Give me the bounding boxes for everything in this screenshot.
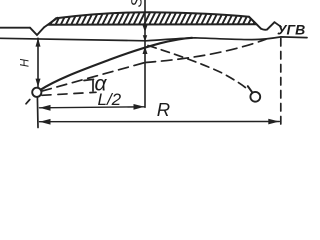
- right circle: [250, 92, 260, 102]
- svg-text:УГВ: УГВ: [277, 22, 305, 38]
- L/2 dimension line: [40, 107, 145, 108]
- S arrow at water line: [143, 35, 147, 42]
- R left arrow: [40, 119, 51, 125]
- L/2 right arrow: [134, 104, 145, 110]
- ground line left: [0, 27, 30, 29]
- embankment left slope: [44, 18, 58, 28]
- H arrow bottom: [36, 79, 41, 88]
- up arrow below curve: [143, 47, 148, 55]
- chord dashed line upper part: [145, 39, 266, 62]
- svg-text:R: R: [157, 99, 170, 120]
- tick mark: [26, 100, 30, 104]
- УГВ water table line: [0, 37, 307, 41]
- H arrow top: [36, 38, 41, 47]
- angle tick: [92, 80, 94, 92]
- R dimension line: [40, 121, 280, 123]
- R right arrow: [268, 119, 279, 125]
- S arrow below band: [143, 25, 148, 32]
- L/2 left arrow: [40, 105, 51, 111]
- chord dashed line lower part: [42, 63, 146, 92]
- right berm slope: [275, 22, 282, 27]
- pavement hatching: [44, 10, 266, 27]
- dashed falling curve to right circle: [148, 46, 249, 91]
- extension line below left circle: [36, 97, 39, 128]
- solid segment into right circle: [248, 86, 253, 92]
- pavement band outline: [49, 12, 257, 25]
- svg-text:S: S: [128, 0, 146, 8]
- svg-text:L/2: L/2: [98, 90, 122, 109]
- depression curve: [41, 38, 193, 90]
- vertical dashed line at R end: [280, 39, 282, 128]
- angle bar dash: [84, 79, 94, 80]
- left ditch: [30, 27, 44, 35]
- H dimension line: [37, 38, 39, 87]
- embankment right slope: [249, 17, 261, 29]
- horizontal dashed reference from circle: [42, 92, 96, 95]
- right ditch: [261, 22, 275, 30]
- left circle: [32, 88, 41, 97]
- S dimension vertical line: [144, 0, 146, 107]
- svg-text:H: H: [20, 58, 32, 67]
